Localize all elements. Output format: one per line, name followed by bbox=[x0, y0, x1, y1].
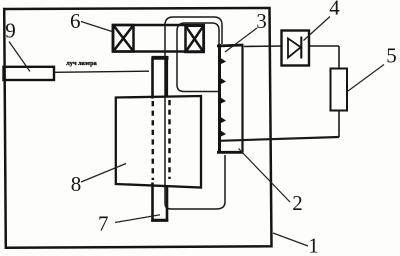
serration tooth 1 on column 3 bbox=[219, 57, 226, 65]
wire valve 4 to node bbox=[309, 45, 339, 47]
wire return to column 3 bbox=[220, 137, 340, 141]
pump 5 bbox=[331, 69, 348, 111]
discharge tube outer wall bbox=[165, 17, 225, 209]
leader line 9 bbox=[9, 42, 30, 72]
serration tooth 5 on column 3 bbox=[219, 130, 226, 138]
laser beam wire bbox=[54, 71, 149, 72]
leader line 8 bbox=[81, 164, 126, 183]
valve 4 box bbox=[282, 31, 310, 66]
wire column 3 to valve 4 bbox=[244, 45, 282, 48]
electromagnet band 6 frame bbox=[113, 25, 204, 52]
leader line 2 bbox=[239, 149, 291, 203]
leader line 7 bbox=[115, 215, 160, 223]
wire pump 5 down bbox=[338, 111, 340, 138]
leader line 3 bbox=[225, 28, 257, 52]
svg-text:7: 7 bbox=[98, 212, 109, 236]
chamber box 8 bbox=[116, 96, 201, 188]
serration tooth 2 on column 3 bbox=[219, 77, 226, 85]
wire down to pump 5 bbox=[338, 46, 340, 69]
serration tooth 3 on column 3 bbox=[219, 97, 226, 105]
svg-text:6: 6 bbox=[70, 9, 81, 33]
svg-text:1: 1 bbox=[308, 234, 319, 256]
svg-text:4: 4 bbox=[329, 0, 340, 20]
coil crossed-box left of 6 bbox=[113, 25, 133, 52]
leader line 5 bbox=[348, 65, 384, 92]
svg-text:3: 3 bbox=[256, 9, 267, 33]
valve 4 triangle symbol bbox=[288, 38, 301, 57]
svg-text:луч лазера: луч лазера bbox=[66, 60, 97, 67]
leader line 1 bbox=[273, 233, 308, 246]
valve 4 seat bar bbox=[300, 37, 302, 59]
discharge tube inner wall bbox=[177, 23, 219, 92]
coil crossed-box right of 6 bbox=[186, 26, 204, 52]
leader line 6 bbox=[81, 22, 112, 32]
svg-text:5: 5 bbox=[386, 44, 397, 68]
leader line 4 bbox=[304, 17, 331, 41]
svg-text:9: 9 bbox=[5, 19, 16, 43]
rod 7 lower solid part bbox=[151, 183, 168, 222]
svg-text:8: 8 bbox=[71, 172, 82, 196]
electrode column 3 body bbox=[217, 44, 244, 153]
rod 7 hidden dashed part bbox=[153, 100, 170, 180]
chamber housing rect 1 bbox=[4, 8, 271, 248]
svg-text:2: 2 bbox=[292, 191, 303, 215]
serration tooth 4 on column 3 bbox=[219, 116, 226, 124]
laser 9 bbox=[4, 67, 55, 80]
rod 7 upper solid part bbox=[152, 58, 169, 99]
